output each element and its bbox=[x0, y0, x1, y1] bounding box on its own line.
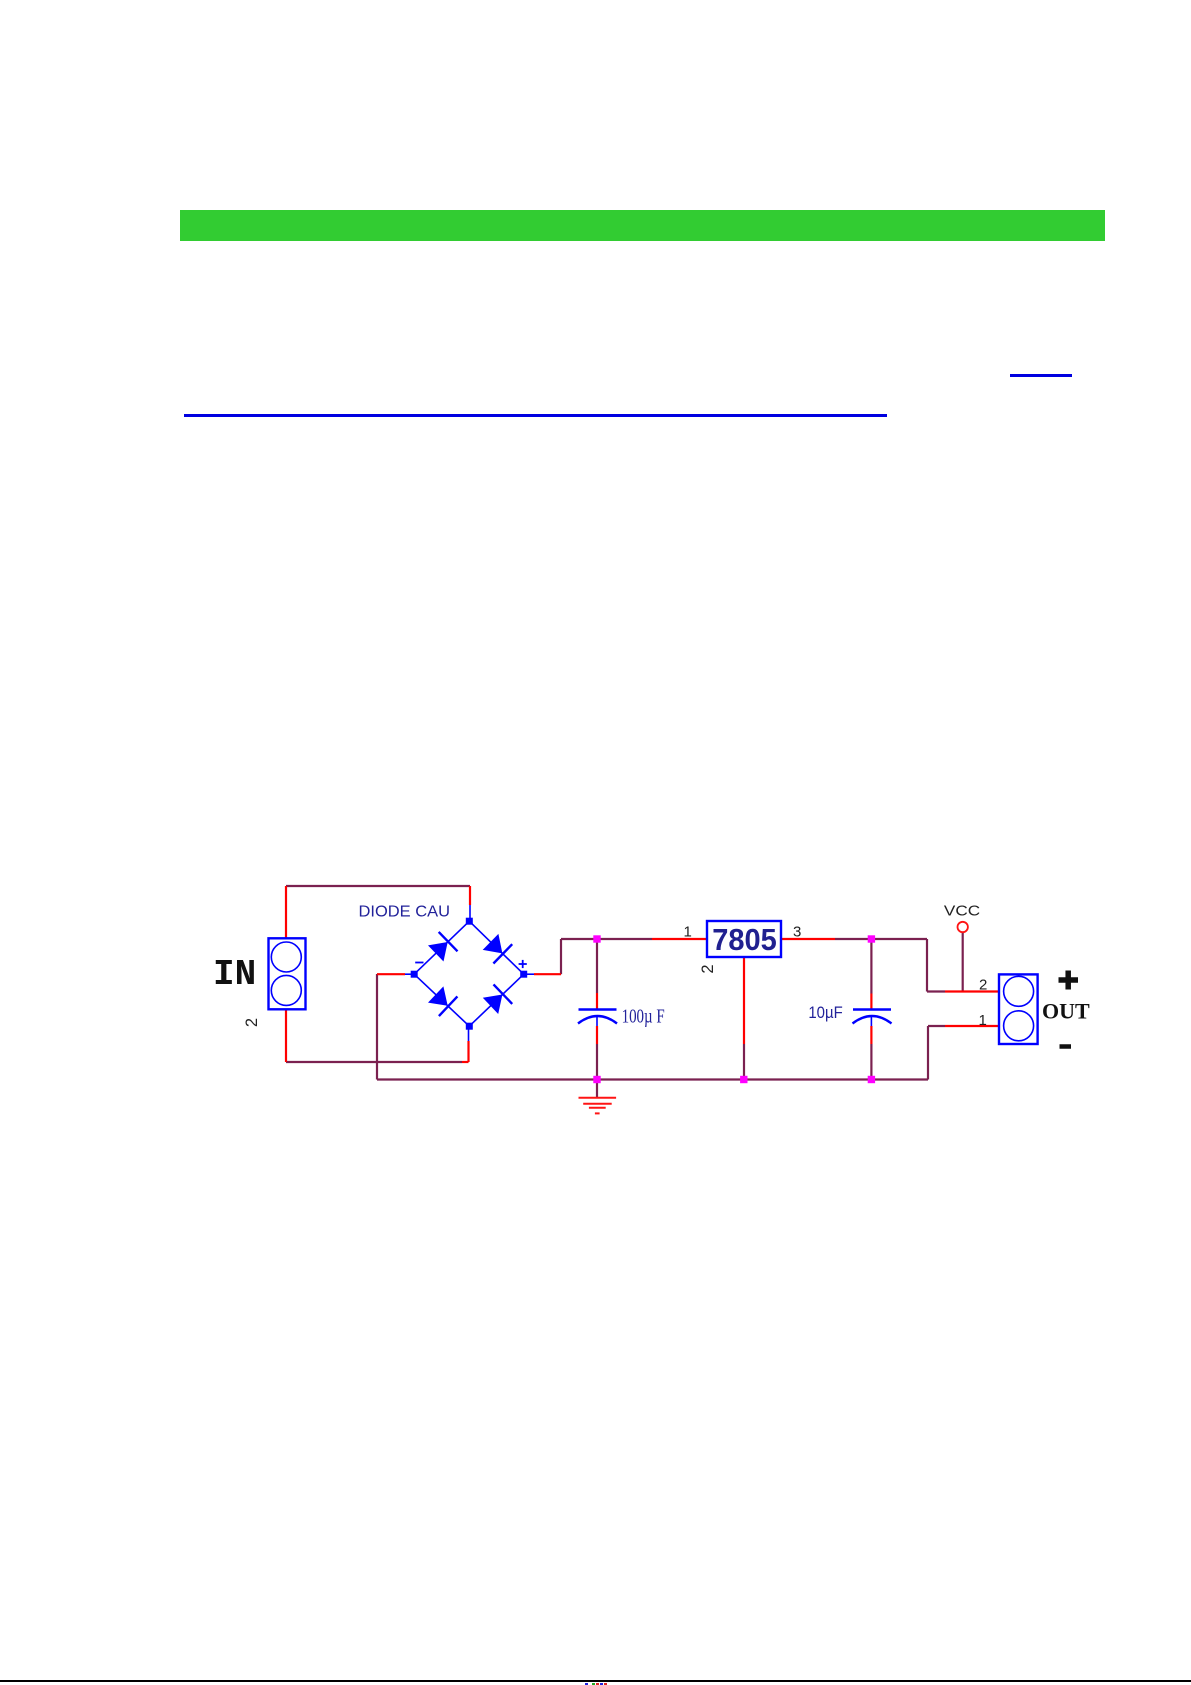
svg-text:IN: IN bbox=[213, 954, 256, 995]
svg-text:OUT: OUT bbox=[1042, 999, 1090, 1024]
svg-text:2: 2 bbox=[979, 977, 987, 994]
svg-text:100µ F: 100µ F bbox=[622, 1006, 665, 1028]
svg-text:2: 2 bbox=[243, 1018, 261, 1027]
svg-text:10µF: 10µF bbox=[808, 1004, 842, 1022]
svg-text:3: 3 bbox=[793, 924, 801, 941]
svg-text:7805: 7805 bbox=[712, 923, 777, 957]
svg-text:VCC: VCC bbox=[944, 902, 980, 919]
svg-text:DIODE CAU: DIODE CAU bbox=[359, 904, 451, 921]
svg-text:2: 2 bbox=[699, 964, 717, 973]
svg-text:1: 1 bbox=[684, 924, 692, 941]
svg-text:1: 1 bbox=[979, 1012, 987, 1029]
